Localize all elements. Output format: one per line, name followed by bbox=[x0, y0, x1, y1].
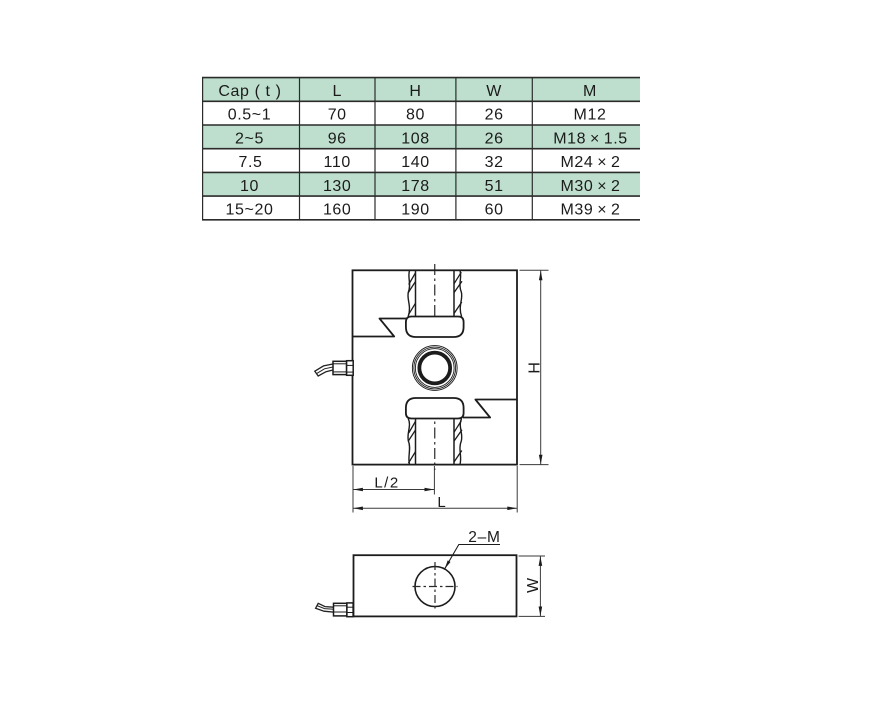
svg-text:M12: M12 bbox=[574, 107, 607, 124]
svg-text:H: H bbox=[409, 83, 421, 100]
upper threaded stud inner lines bbox=[416, 270, 455, 316]
cable gland body top view bbox=[333, 361, 347, 374]
svg-text:W: W bbox=[486, 83, 502, 100]
upper stud wavy outer thread edges bbox=[408, 270, 462, 316]
svg-text:160: 160 bbox=[323, 202, 352, 219]
lower threaded stud inner lines bbox=[416, 419, 455, 465]
lower stud wavy outer thread edges bbox=[408, 419, 462, 465]
table horizontal grid lines bbox=[202, 78, 640, 220]
cable top view bbox=[315, 364, 334, 376]
svg-text:110: 110 bbox=[324, 154, 351, 171]
svg-text:130: 130 bbox=[323, 178, 352, 195]
vertical centerline lower bbox=[434, 407, 436, 470]
svg-text:W: W bbox=[525, 577, 542, 593]
svg-text:26: 26 bbox=[485, 130, 504, 147]
L/2 dimension arrows bbox=[353, 488, 363, 492]
svg-text:10: 10 bbox=[240, 178, 259, 195]
svg-text:M: M bbox=[583, 83, 597, 100]
2-M hole circle bbox=[415, 567, 455, 607]
dimension extension lines below body bbox=[353, 466, 517, 513]
cable gland flange top view bbox=[347, 361, 354, 376]
right S-slot notch bbox=[463, 400, 517, 418]
upper stud thread hatch ticks bbox=[408, 272, 462, 315]
side view drawing bbox=[316, 529, 545, 617]
svg-text:60: 60 bbox=[485, 202, 504, 219]
svg-text:2~5: 2~5 bbox=[235, 130, 264, 147]
2-M leader line bbox=[445, 545, 500, 570]
table vertical grid lines bbox=[203, 78, 533, 220]
hole vertical centerline bbox=[434, 562, 436, 610]
svg-text:108: 108 bbox=[401, 130, 430, 147]
svg-text:7.5: 7.5 bbox=[238, 154, 262, 171]
svg-text:0.5~1: 0.5~1 bbox=[228, 107, 271, 124]
green header row band bbox=[202, 78, 640, 102]
cable gland flange side view bbox=[347, 603, 353, 617]
W dimension extension lines bbox=[519, 556, 546, 616]
svg-text:H: H bbox=[527, 362, 544, 374]
svg-text:L/2: L/2 bbox=[374, 475, 399, 492]
table text bbox=[218, 83, 627, 219]
center hole rings bbox=[412, 346, 457, 391]
top view drawing bbox=[315, 264, 549, 513]
W dimension line bbox=[539, 556, 541, 616]
svg-text:L: L bbox=[332, 83, 342, 100]
W dimension arrows bbox=[539, 556, 543, 566]
svg-text:M39 × 2: M39 × 2 bbox=[561, 202, 621, 219]
L/2 dimension line bbox=[353, 489, 434, 491]
svg-text:26: 26 bbox=[485, 107, 504, 124]
cable inner line side view bbox=[317, 606, 334, 610]
svg-text:Cap ( t ): Cap ( t ) bbox=[218, 83, 281, 100]
vertical centerline upper bbox=[434, 264, 436, 328]
svg-text:2–M: 2–M bbox=[468, 529, 501, 546]
cable inner line top view bbox=[317, 367, 334, 374]
side view body rectangle bbox=[354, 555, 517, 616]
hole horizontal centerline bbox=[413, 586, 458, 588]
upper boss nut bbox=[406, 317, 464, 338]
L dimension line bbox=[353, 507, 517, 509]
svg-text:70: 70 bbox=[328, 107, 347, 124]
svg-text:80: 80 bbox=[406, 107, 425, 124]
svg-text:M24 × 2: M24 × 2 bbox=[561, 154, 621, 171]
svg-text:178: 178 bbox=[401, 178, 430, 195]
H dimension arrows bbox=[539, 271, 543, 281]
svg-text:32: 32 bbox=[485, 154, 504, 171]
left S-slot notch bbox=[353, 319, 407, 337]
svg-text:96: 96 bbox=[328, 130, 347, 147]
svg-text:140: 140 bbox=[401, 154, 430, 171]
lower boss nut bbox=[406, 398, 464, 419]
green row 10 band bbox=[202, 172, 640, 196]
svg-text:M30 × 2: M30 × 2 bbox=[561, 178, 621, 195]
svg-text:L: L bbox=[437, 494, 445, 511]
green row 2~5 band bbox=[202, 125, 640, 149]
cable gland body side view bbox=[334, 603, 347, 616]
cable side view bbox=[316, 603, 334, 612]
2-M leader arrow bbox=[445, 560, 451, 569]
svg-text:15~20: 15~20 bbox=[226, 202, 274, 219]
L dimension arrows bbox=[353, 507, 363, 511]
lower stud thread hatch ticks bbox=[408, 421, 462, 464]
svg-text:51: 51 bbox=[485, 178, 504, 195]
svg-text:M18 × 1.5: M18 × 1.5 bbox=[553, 130, 628, 147]
load cell body outline bbox=[353, 270, 518, 464]
spec table bbox=[202, 78, 640, 220]
H dimension extension lines bbox=[520, 270, 549, 464]
H dimension line bbox=[540, 270, 542, 464]
svg-text:190: 190 bbox=[401, 202, 430, 219]
